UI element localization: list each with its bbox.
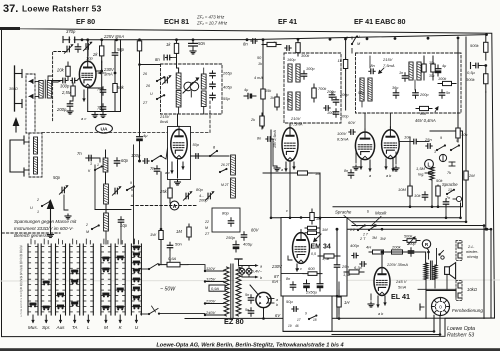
- ground: [190, 49, 196, 54]
- x: [465, 183, 467, 206]
- capacitor 405p: [210, 82, 215, 89]
- dashed ground bus: [2, 232, 60, 234]
- label b: [260, 276, 262, 280]
- label 15V 2.5mA: [273, 130, 277, 148]
- svg-text:700k: 700k: [318, 87, 327, 91]
- svg-text:Loewe-Opta AG, Werk Berlin, Be: Loewe-Opta AG, Werk Berlin, Berlin-Stegl…: [156, 343, 344, 349]
- junction: [100, 70, 103, 73]
- dial lamp: [239, 268, 245, 274]
- svg-text:1: 1: [37, 210, 39, 214]
- value label 1,5k: [343, 272, 352, 277]
- mixer coil 1: [231, 155, 236, 175]
- svg-text:50n: 50n: [175, 242, 182, 247]
- value label 4μ: [143, 133, 148, 138]
- value label 100p: [327, 111, 335, 115]
- electrolytic capacitor: [304, 280, 310, 291]
- svg-text:Bereich gemessen.: Bereich gemessen.: [14, 233, 53, 238]
- capacitor 50p mixer: [194, 154, 200, 159]
- svg-text:~ 50W: ~ 50W: [160, 287, 176, 293]
- value label 3: [90, 162, 92, 166]
- resistor 1M f: [310, 209, 314, 224]
- svg-text:225V 8mA: 225V 8mA: [103, 34, 124, 39]
- capacitor 50u: [292, 307, 298, 312]
- svg-text:22: 22: [204, 220, 209, 224]
- junction: [485, 228, 488, 231]
- tube V8 EZ 80 rectifier: [256, 292, 274, 307]
- capacitor 36p: [393, 90, 398, 98]
- value label 1M: [316, 217, 322, 221]
- svg-text:8n: 8n: [371, 64, 375, 68]
- x: [212, 68, 214, 70]
- svg-text:46: 46: [295, 324, 299, 328]
- value label 1k: [338, 58, 343, 63]
- value label 300k: [466, 77, 476, 82]
- value label 10p: [120, 223, 128, 228]
- svg-text:a: a: [276, 298, 278, 302]
- wire sw to coil: [35, 81, 39, 83]
- value label 25k: [159, 189, 168, 194]
- value label 2k: [250, 118, 256, 122]
- power transformer primary: [224, 267, 229, 316]
- svg-text:2k: 2k: [92, 52, 98, 57]
- wire IF2 to EF41b: [364, 113, 366, 132]
- value label 300p: [60, 84, 70, 89]
- model note: [447, 326, 475, 339]
- measurement note: [14, 219, 77, 238]
- svg-text:110V: 110V: [206, 266, 215, 271]
- ground: [368, 302, 374, 307]
- switch contact: [351, 35, 358, 45]
- svg-text:210V: 210V: [290, 116, 301, 121]
- value label 4μ: [244, 88, 249, 92]
- scan artifact top left: [0, 27, 20, 30]
- value label 2T: [142, 101, 148, 105]
- trimmer capacitor: [64, 44, 73, 53]
- wire: [312, 172, 320, 174]
- band switch contact a: [156, 76, 165, 82]
- IF1 coil b: [296, 64, 300, 82]
- ground: [353, 165, 359, 170]
- capacitor 370p: [69, 37, 74, 44]
- resistor 1W: [159, 229, 163, 241]
- wire: [24, 141, 29, 143]
- wire mains c: [188, 265, 205, 271]
- remote connector socket: [432, 298, 450, 316]
- title 37. Loewe Ratsherr 53: [3, 3, 102, 15]
- svg-text:2: 2: [85, 223, 88, 227]
- svg-text:245 V: 245 V: [395, 279, 407, 284]
- resistor 1M c: [305, 226, 319, 229]
- switch wafer K: [115, 244, 125, 315]
- tap 240V: [205, 314, 224, 316]
- capacitor cathode: [266, 137, 272, 142]
- pin lead EF41 b: [292, 162, 295, 170]
- ground: [48, 233, 54, 238]
- svg-text:30k: 30k: [429, 74, 435, 78]
- wire trunk x337: [336, 229, 338, 262]
- wire: [64, 195, 68, 210]
- value label 50k: [117, 85, 125, 90]
- arrow 215V: [378, 68, 384, 74]
- tube label EF 41 EABC 80: [354, 17, 406, 26]
- resistor 300k: [296, 39, 300, 56]
- cap to ground: [449, 162, 455, 166]
- value label 1: [97, 163, 99, 167]
- svg-text:8n: 8n: [257, 137, 261, 141]
- wire speaker hot: [436, 249, 438, 266]
- svg-text:8n: 8n: [344, 169, 348, 173]
- voltage label 225V 8mA: [103, 34, 124, 39]
- value label 6μ: [287, 98, 291, 102]
- resistor 600: [303, 272, 322, 276]
- svg-text:50p: 50p: [53, 175, 61, 180]
- svg-text:60V: 60V: [348, 120, 355, 125]
- wire fm trunk: [94, 165, 96, 210]
- wire: [114, 93, 116, 112]
- value label 1,5k: [322, 256, 331, 261]
- value label 1W: [150, 232, 157, 237]
- resistor 1k c: [343, 58, 347, 70]
- svg-text:2T: 2T: [142, 101, 148, 105]
- svg-text:36p: 36p: [392, 86, 398, 90]
- svg-text:500k: 500k: [470, 43, 480, 48]
- wire 8n: [171, 57, 177, 59]
- value label 5mA: [398, 285, 407, 290]
- svg-text:7n: 7n: [446, 196, 450, 200]
- svg-text:U: U: [135, 325, 139, 330]
- IF II and detector dashed box: [356, 53, 462, 113]
- label 300 ohm: [9, 87, 18, 91]
- AM input coil box: [29, 133, 42, 177]
- resistor 300k: [484, 66, 488, 93]
- value label M 2T: [221, 183, 230, 187]
- jack remote: [420, 304, 424, 310]
- svg-text:Loewe Opta: Loewe Opta: [447, 326, 475, 332]
- svg-text:9: 9: [440, 136, 442, 140]
- value label 15k: [265, 89, 272, 93]
- capacitor 8n rail: [251, 39, 257, 44]
- wire to osc box: [140, 64, 161, 66]
- wire osc to tube: [177, 114, 179, 127]
- trimmer capacitor: [162, 75, 171, 84]
- detector coil b: [417, 62, 421, 80]
- value label 2T: [204, 232, 210, 236]
- wire: [355, 150, 357, 163]
- wire to wafer: [105, 231, 107, 244]
- wire: [105, 204, 107, 213]
- value label 230V: [103, 67, 115, 72]
- pin lead EL41 a: [376, 296, 379, 308]
- value label 22: [204, 220, 209, 224]
- IF transformer I dashed box: [284, 53, 341, 123]
- svg-text:1M: 1M: [176, 229, 182, 234]
- junction: [192, 38, 195, 41]
- value label 2x50μ: [305, 290, 318, 295]
- scan edge bottom: [0, 348, 500, 351]
- dashed motor control line: [131, 205, 198, 207]
- tube V3 EF 41 first: [282, 125, 298, 161]
- ground: [393, 166, 399, 171]
- speech switch: [446, 189, 455, 195]
- value label 3W: [380, 237, 386, 241]
- wire af v5: [445, 207, 447, 218]
- svg-text:5n: 5n: [245, 293, 249, 297]
- svg-text:2 T: 2 T: [359, 237, 366, 241]
- capacitor 1n: [402, 73, 407, 81]
- svg-text:0,9A: 0,9A: [211, 286, 219, 291]
- resistor 500k b: [403, 239, 420, 243]
- value label 7,5mA: [291, 122, 303, 127]
- wire: [141, 313, 150, 315]
- value label 60p: [121, 158, 129, 163]
- remote control box: [283, 296, 332, 331]
- value label nieder-: [466, 249, 479, 254]
- svg-text:6,4V~: 6,4V~: [252, 269, 263, 274]
- electrolytic capacitor: [435, 65, 441, 76]
- band switch K6: [126, 185, 135, 191]
- capacitor 50n mains: [167, 242, 172, 250]
- switch wafer U: [131, 244, 141, 315]
- switch label K: [119, 325, 123, 330]
- tube label EF 80: [76, 17, 95, 26]
- capacitor 7n osc: [154, 166, 159, 174]
- wire coil up: [203, 68, 205, 74]
- value label 50: [257, 56, 262, 60]
- FM dipole antenna: [15, 66, 23, 111]
- resistor 2k b: [260, 113, 264, 129]
- value label 210V: [290, 116, 301, 121]
- svg-text:10kΩ: 10kΩ: [467, 287, 478, 292]
- switch arrow U: [135, 315, 138, 324]
- svg-text:0,5: 0,5: [311, 252, 316, 256]
- wire ground bus: [88, 111, 121, 113]
- wire AF box: [333, 131, 463, 207]
- svg-text:0,5μ: 0,5μ: [467, 70, 476, 75]
- svg-text:2T: 2T: [204, 232, 210, 236]
- label EL 41: [391, 292, 410, 301]
- value label 50k: [436, 178, 443, 183]
- IF2 coil b: [368, 78, 372, 101]
- value label 4H: [366, 245, 371, 250]
- wire plate to OT: [382, 252, 426, 263]
- wire af v3: [431, 180, 433, 207]
- power transformer core: [231, 264, 233, 319]
- wire speaker bus: [418, 288, 456, 290]
- svg-text:2 T: 2 T: [362, 233, 369, 237]
- wire EF80 plate: [87, 40, 89, 61]
- svg-text:a b: a b: [378, 312, 383, 316]
- tone switch b: [450, 144, 460, 151]
- wire right trunk: [485, 92, 487, 229]
- value label 9: [130, 181, 132, 185]
- svg-text:25n: 25n: [341, 264, 349, 269]
- capacitor 7n input: [86, 155, 94, 160]
- label 6V: [275, 313, 281, 318]
- potentiometer 1.5M: [425, 167, 434, 180]
- wire: [281, 273, 303, 275]
- value label 25n: [341, 264, 349, 269]
- capacitor 10k? c: [422, 192, 427, 200]
- svg-text:100k: 100k: [438, 77, 447, 81]
- wire: [90, 158, 100, 162]
- wire trunk x466: [465, 37, 467, 222]
- antenna coil a: [39, 81, 43, 99]
- svg-text:60p: 60p: [121, 158, 129, 163]
- headphone jack: [453, 196, 462, 201]
- capacitor 55p: [210, 93, 215, 100]
- resistor 80k: [416, 106, 432, 110]
- choke 1H: [337, 290, 341, 314]
- resistor 1k: [174, 40, 178, 57]
- wire rail B: [271, 203, 461, 218]
- capacitor 50p: [112, 50, 117, 58]
- value label 160p: [287, 58, 295, 62]
- value label 9: [440, 136, 442, 140]
- svg-text:log.: log.: [418, 172, 424, 177]
- svg-text:8mA: 8mA: [160, 119, 169, 124]
- value label 26: [142, 72, 147, 76]
- resistor 1M d: [305, 231, 319, 234]
- capacitor 200p d: [333, 97, 338, 105]
- svg-text:265p: 265p: [222, 71, 233, 76]
- svg-text:9: 9: [305, 312, 307, 316]
- svg-text:EM 34: EM 34: [311, 244, 331, 251]
- capacitor 7n b: [443, 199, 448, 207]
- value label 500k: [404, 235, 413, 239]
- svg-text:20k: 20k: [56, 68, 65, 73]
- capacitor 10p: [118, 217, 123, 225]
- value label 46V 0,4mA: [415, 118, 436, 123]
- junction: [457, 37, 460, 40]
- label 6.4V: [252, 269, 263, 274]
- tuning gang capacitor: [183, 77, 199, 97]
- resistor 700k: [312, 84, 316, 102]
- label 50W: [160, 287, 176, 293]
- trimmer capacitor: [112, 186, 121, 195]
- switch label M: [104, 325, 108, 330]
- resistor 1M grid: [187, 224, 191, 240]
- svg-text:2M: 2M: [468, 173, 475, 178]
- svg-text:80p: 80p: [222, 211, 229, 216]
- svg-text:15V 2,5mA: 15V 2,5mA: [273, 130, 277, 148]
- svg-text:c: c: [286, 209, 288, 213]
- resistor 1.5k: [344, 270, 364, 274]
- resistor 10M: [408, 184, 412, 198]
- label Fernbedienung: [452, 308, 483, 313]
- capacitor 100p: [143, 159, 149, 164]
- value label 200p: [326, 90, 335, 94]
- value label 9: [305, 312, 307, 316]
- power transformer secondary: [236, 267, 241, 316]
- pin label EL41: [378, 312, 383, 316]
- capacitor 50n: [189, 40, 198, 49]
- svg-text:250p: 250p: [225, 235, 236, 240]
- wire B+ rail: [63, 35, 487, 40]
- svg-text:160p: 160p: [287, 58, 295, 62]
- mixer unit box: [168, 127, 191, 180]
- wire speaker lead: [446, 275, 448, 290]
- x: [102, 72, 115, 74]
- value label 8n: [243, 42, 248, 47]
- resistor 10k top: [456, 124, 460, 142]
- svg-text:3M: 3M: [372, 236, 377, 240]
- wire: [24, 169, 29, 171]
- wire 2k down: [101, 61, 103, 112]
- tuning mechanics dashed line: [42, 100, 210, 133]
- value label U: [150, 92, 153, 96]
- junction: [114, 72, 117, 75]
- svg-text:405p: 405p: [223, 85, 233, 90]
- tube V5 EABC 80: [382, 127, 400, 159]
- value label 1n: [399, 71, 403, 75]
- band switch contact b: [156, 94, 165, 100]
- IF2 coil a: [360, 78, 364, 101]
- pin lead EF41: [284, 162, 287, 172]
- RF coil 2: [104, 184, 109, 204]
- svg-text:0: 0: [346, 36, 348, 40]
- switch label Mus.: [28, 325, 38, 330]
- value label 1M: [322, 227, 328, 232]
- wire 50n to mains: [169, 250, 171, 265]
- label EZ 80: [224, 317, 244, 326]
- wire: [87, 40, 89, 42]
- scan fold line: [0, 280, 500, 281]
- switch g: [209, 150, 218, 157]
- resistor 20k: [66, 62, 70, 81]
- svg-text:0,6A: 0,6A: [168, 256, 177, 261]
- resistor 2M: [464, 168, 468, 183]
- mains double switch: [148, 306, 160, 315]
- svg-text:7,5mA: 7,5mA: [291, 122, 303, 127]
- pin b EZ80: [276, 303, 278, 307]
- pin label a: [281, 168, 283, 172]
- value label 0: [346, 36, 348, 40]
- value label 55p: [223, 96, 230, 101]
- value label 245 V: [395, 279, 407, 284]
- resistor 2,5M: [71, 83, 75, 99]
- socket contacts b: [456, 281, 462, 301]
- tap dots: [204, 270, 206, 316]
- value label 8mA: [160, 119, 169, 124]
- value label 1H: [344, 300, 350, 305]
- chassis bar: [235, 259, 242, 265]
- label 50n mains: [175, 242, 182, 247]
- speaker switch contact: [438, 251, 444, 260]
- svg-text:UA: UA: [101, 127, 108, 133]
- svg-text:a c: a c: [81, 116, 86, 121]
- switch contact: [41, 200, 51, 207]
- svg-text:200p: 200p: [56, 107, 67, 112]
- value label 3M: [372, 236, 377, 240]
- switch arrow Spr.: [45, 315, 48, 324]
- capacitor 300p: [71, 78, 77, 83]
- value label 2: [36, 198, 39, 202]
- value label 265p: [222, 71, 233, 76]
- tube label ECH 81: [164, 17, 189, 26]
- resistor 30k a: [422, 56, 426, 80]
- value label U: [357, 35, 360, 39]
- capacitor 5n: [439, 90, 444, 98]
- wire: [77, 78, 79, 81]
- volume pot symbol L: [425, 160, 434, 169]
- wire rail C: [352, 221, 466, 223]
- svg-text:1n: 1n: [399, 71, 403, 75]
- value label 87: [274, 274, 279, 279]
- resistor 15k: [261, 84, 265, 104]
- x: [336, 96, 346, 98]
- wire: [139, 144, 141, 161]
- svg-text:125V: 125V: [206, 277, 216, 282]
